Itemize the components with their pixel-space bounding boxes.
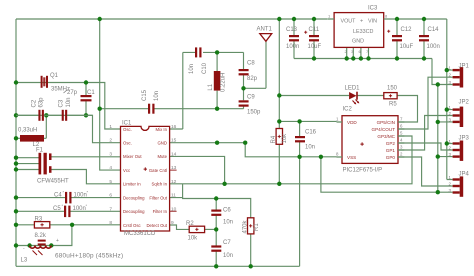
wire C6 top row to R1 <box>183 198 251 218</box>
label C11 10uF <box>308 27 322 50</box>
svg-text:1: 1 <box>109 124 112 130</box>
wire C11 column <box>313 19 315 59</box>
svg-text:11: 11 <box>171 193 176 199</box>
svg-text:C16: C16 <box>305 130 317 136</box>
inductor L2 <box>20 135 44 142</box>
wire JP4 pin3 stub <box>438 191 453 193</box>
svg-text:3: 3 <box>109 151 112 157</box>
label C5 100n <box>53 203 88 212</box>
label F1 CFW455HT <box>36 148 69 185</box>
svg-text:Gate Cntl: Gate Cntl <box>149 168 167 173</box>
wire C13 column <box>293 19 295 59</box>
wire C15 row <box>100 108 244 110</box>
label JP3 <box>459 136 470 142</box>
label 150 R5 <box>387 86 398 108</box>
svg-text:12: 12 <box>171 179 177 185</box>
svg-text:C2: C2 <box>32 99 38 107</box>
svg-text:6: 6 <box>109 193 112 199</box>
antenna ANT1 <box>260 34 272 42</box>
svg-text:100n: 100n <box>73 206 86 212</box>
svg-text:IC1: IC1 <box>122 121 132 127</box>
wire IC1 pin15 ground run to IC2 VSS <box>170 143 337 157</box>
label JP4 <box>459 172 470 178</box>
wire C4 row to IC1 pin6 <box>16 197 121 199</box>
label JP2 <box>459 100 470 106</box>
svg-text:C11: C11 <box>309 27 320 33</box>
wire 3.3V rail down from top <box>278 19 280 129</box>
svg-text:10n: 10n <box>189 64 195 74</box>
capacitor C5 <box>64 206 71 218</box>
wire C8 C9 antenna column <box>244 41 267 108</box>
pin numbers JP1 <box>449 66 452 85</box>
svg-text:4: 4 <box>109 165 112 171</box>
wire C6 C7 column <box>215 199 217 267</box>
svg-text:C3: C3 <box>59 99 65 107</box>
IC3 internal texts <box>341 19 378 45</box>
svg-text:10n: 10n <box>223 220 233 226</box>
capacitor C2 <box>16 110 62 121</box>
svg-text:10n: 10n <box>66 97 72 107</box>
svg-text:0.22uH: 0.22uH <box>221 73 227 92</box>
capacitor C3 <box>62 110 93 121</box>
svg-text:MC3361CD: MC3361CD <box>124 231 156 237</box>
svg-text:C6: C6 <box>223 208 231 214</box>
wire C16 column <box>299 121 301 266</box>
svg-text:Mixer Out: Mixer Out <box>123 154 142 159</box>
label 10n C10 <box>189 62 208 74</box>
wire oscillator VCC drop to IC1 pin4 <box>100 19 121 170</box>
svg-text:150: 150 <box>387 86 398 92</box>
resistor R4 <box>276 129 282 145</box>
svg-text:VDD: VDD <box>347 120 357 125</box>
svg-text:0,33uH: 0,33uH <box>18 128 37 134</box>
svg-text:Detect Out: Detect Out <box>146 223 167 228</box>
svg-text:LE33CD: LE33CD <box>353 29 373 35</box>
wire LED R5 row <box>279 96 417 123</box>
svg-text:7: 7 <box>109 206 112 212</box>
wire VCC chain to JP pin1 <box>447 19 453 180</box>
wire C12 column <box>396 19 398 59</box>
label ANT1 <box>257 27 273 33</box>
svg-text:100n: 100n <box>427 44 440 50</box>
pin numbers IC1 <box>109 124 176 226</box>
wire GP1 to JP2 pin2 <box>398 116 453 151</box>
label C15 10n <box>142 89 160 101</box>
capacitor C13 <box>289 35 299 41</box>
svg-text:5: 5 <box>109 179 112 185</box>
wire L3 tank row <box>16 225 72 246</box>
svg-text:C8: C8 <box>247 61 255 67</box>
svg-text:Limiter In: Limiter In <box>123 182 141 187</box>
label R2 10k <box>186 221 198 241</box>
label C13 100n <box>286 27 299 50</box>
svg-text:JP1: JP1 <box>459 64 470 70</box>
wire L1 column <box>216 52 218 108</box>
label IC2 PIC12F675 <box>343 107 383 174</box>
svg-text:GND: GND <box>352 39 364 45</box>
wire ground chain JP pin3 <box>438 85 453 193</box>
svg-text:Crstl Osc: Crstl Osc <box>123 223 142 228</box>
svg-text:JP4: JP4 <box>459 172 470 178</box>
svg-text:GP0: GP0 <box>386 155 396 160</box>
label C2 63p <box>32 97 45 108</box>
svg-text:LED1: LED1 <box>345 86 361 92</box>
svg-text:R1: R1 <box>254 223 260 231</box>
label IC3 LE33CD <box>368 6 378 12</box>
svg-text:10uF: 10uF <box>308 44 322 50</box>
label 27p C1 <box>64 90 96 96</box>
capacitor C11 polarized <box>304 31 319 42</box>
connector JP1 <box>453 67 464 87</box>
svg-text:Osc.: Osc. <box>123 127 132 132</box>
IC U2 PIC12F675 box <box>337 116 405 164</box>
connector JP4 <box>453 176 464 196</box>
connector JP3 <box>453 141 464 161</box>
wire squelch net B <box>170 136 412 184</box>
LED LED1 <box>349 92 359 105</box>
capacitor C8 <box>239 69 249 75</box>
label R4 10k <box>271 133 288 144</box>
label L3 value <box>21 238 124 264</box>
svg-text:9: 9 <box>171 220 174 226</box>
wire F1 to IC1 pin5 <box>52 170 121 184</box>
wire IC1 pin11 pin12 loop <box>170 184 183 198</box>
svg-text:14: 14 <box>171 151 177 157</box>
svg-text:VSS: VSS <box>347 155 356 160</box>
svg-text:L3: L3 <box>21 258 28 264</box>
svg-text:C7: C7 <box>223 240 231 246</box>
svg-text:C9: C9 <box>247 95 255 101</box>
svg-text:GND: GND <box>157 141 167 146</box>
svg-text:10n: 10n <box>223 253 233 259</box>
capacitor C4 <box>65 192 72 204</box>
pin stubs IC1 unconnected <box>170 170 177 211</box>
wire L2 row <box>16 115 46 138</box>
wire R4 bottom <box>278 144 280 184</box>
resistor R3 <box>34 222 49 228</box>
pin numbers IC2 <box>336 117 403 157</box>
wire VSS branch down to ground bus <box>321 157 438 192</box>
pin numbers JP2 <box>449 105 452 122</box>
label C7 10n <box>223 240 233 259</box>
wire GP2 to JP3 pin2 <box>398 143 453 150</box>
resistor R2 <box>189 226 204 232</box>
label C14 100n <box>427 27 440 50</box>
svg-text:680uH+180p (455kHz): 680uH+180p (455kHz) <box>55 253 123 260</box>
pin names IC1 right <box>146 127 167 228</box>
svg-text:C1: C1 <box>87 90 95 96</box>
svg-text:Mix In: Mix In <box>156 127 168 132</box>
svg-text:CFW455HT: CFW455HT <box>37 179 69 185</box>
svg-text:GP1: GP1 <box>386 148 396 153</box>
svg-text:470k: 470k <box>243 219 249 233</box>
pin numbers JP3 <box>449 139 452 157</box>
capacitor C6 <box>211 210 221 216</box>
svg-text:R2: R2 <box>186 221 194 227</box>
wire C5 row to IC1 pin7 <box>16 210 121 212</box>
svg-text:150p: 150p <box>247 110 261 116</box>
svg-text:82p: 82p <box>247 76 258 82</box>
svg-text:10n: 10n <box>305 145 315 151</box>
svg-text:C13: C13 <box>286 27 298 33</box>
pin names IC2 <box>347 120 396 160</box>
svg-text:C12: C12 <box>401 27 413 33</box>
wire IC1 pin9 to R2 <box>170 225 190 229</box>
svg-text:PIC12F675-I/P: PIC12F675-I/P <box>343 168 383 174</box>
svg-text:C15: C15 <box>142 89 148 101</box>
wire bottom ground rail <box>16 265 300 267</box>
svg-text:27p: 27p <box>67 90 78 96</box>
svg-text:Decoupling: Decoupling <box>123 209 145 214</box>
svg-text:100n: 100n <box>74 193 87 199</box>
svg-text:63p: 63p <box>39 97 45 108</box>
svg-text:R5: R5 <box>389 102 397 108</box>
wire GP0 to JP4 pin2 <box>398 157 453 186</box>
svg-text:GP2: GP2 <box>386 141 396 146</box>
capacitor C1 <box>81 95 92 101</box>
wire C2 C3 row to IC1 pin2 <box>16 115 121 142</box>
wire R2 to C6 C7 node <box>205 228 216 230</box>
wire F1 to IC1 pin3 <box>52 156 121 158</box>
svg-text:JP3: JP3 <box>459 136 470 142</box>
svg-text:F1: F1 <box>36 148 44 154</box>
svg-text:Mute: Mute <box>157 154 167 159</box>
label 0.33uH L2 <box>18 128 40 149</box>
inductor L3 tank <box>30 240 52 255</box>
wire left rail <box>15 19 17 266</box>
svg-text:10n: 10n <box>154 91 160 101</box>
resistor R1 <box>248 218 254 234</box>
label LED1 <box>345 86 361 92</box>
crystal Q1 <box>41 76 48 88</box>
svg-text:JP2: JP2 <box>459 100 470 106</box>
capacitor C7 <box>211 245 221 251</box>
svg-text:10: 10 <box>171 206 177 212</box>
svg-text:+: + <box>56 238 59 244</box>
svg-text:Vcc: Vcc <box>123 168 131 173</box>
svg-text:VIN: VIN <box>368 19 377 25</box>
svg-text:10k: 10k <box>282 133 288 144</box>
label C3 10n <box>59 97 73 107</box>
svg-text:Q1: Q1 <box>50 73 59 79</box>
label IC1 MC3361CD <box>122 121 156 238</box>
svg-text:100n: 100n <box>286 44 299 50</box>
capacitor C14 <box>419 35 429 41</box>
capacitor C9 <box>239 100 249 106</box>
connector JP2 <box>453 107 464 127</box>
svg-text:10k: 10k <box>188 236 199 242</box>
label R3 8.2k <box>35 217 47 240</box>
pin numbers JP4 <box>449 175 452 193</box>
svg-text:GP3/MC: GP3/MC <box>377 134 395 139</box>
wire Q1 crystal row to IC1 pin1 <box>16 83 121 130</box>
label Q1 <box>50 73 70 93</box>
wire F1 left pins <box>16 158 39 170</box>
label C9 150p <box>247 95 261 116</box>
svg-text:16: 16 <box>171 124 177 130</box>
wire IC3 ground pin stubs <box>347 47 369 58</box>
capacitor C12 polarized <box>387 30 402 42</box>
svg-text:Decoupling: Decoupling <box>123 195 145 200</box>
wire R1 bottom <box>250 234 252 266</box>
svg-text:GP5/CIN: GP5/CIN <box>377 120 395 125</box>
svg-text:IC3: IC3 <box>368 6 378 12</box>
pin names IC1 left <box>123 127 145 228</box>
svg-text:ANT1: ANT1 <box>257 27 273 33</box>
wire VCC top rail <box>16 18 447 20</box>
svg-text:10uF: 10uF <box>400 44 414 50</box>
label C8 82p <box>247 61 258 83</box>
svg-text:8: 8 <box>109 220 112 226</box>
svg-text:R3: R3 <box>35 217 43 223</box>
svg-text:L1: L1 <box>208 83 214 90</box>
IC U3 LE33CD box <box>327 13 389 48</box>
capacitor C15 <box>148 104 155 114</box>
svg-text:Filter Out: Filter Out <box>149 195 167 200</box>
wire C10 mixer row <box>170 52 244 129</box>
svg-text:+: + <box>360 19 363 25</box>
label 470k R1 <box>243 219 261 233</box>
svg-text:15: 15 <box>171 138 177 144</box>
label C6 10n <box>223 208 233 226</box>
wire IC3 gnd row <box>294 58 432 60</box>
svg-text:VOUT: VOUT <box>341 19 357 25</box>
svg-text:IC2: IC2 <box>343 107 353 113</box>
svg-text:Sqlch In: Sqlch In <box>151 182 167 187</box>
svg-text:C14: C14 <box>428 27 440 33</box>
label C4 100n <box>54 190 89 199</box>
filter F1 <box>39 153 52 175</box>
svg-text:Osc.: Osc. <box>123 141 132 146</box>
IC U1 MC3361CD box <box>121 126 170 231</box>
label JP1 <box>459 64 470 70</box>
wire IC1 pin14 drop <box>170 156 225 183</box>
IC3 pin numbers <box>328 14 388 55</box>
inductor L1 <box>214 71 221 91</box>
svg-text:R4: R4 <box>271 135 277 143</box>
svg-text:8.2k: 8.2k <box>35 233 47 239</box>
svg-text:C10: C10 <box>202 62 208 74</box>
wire ground drop to JP1 pin3 <box>432 59 453 85</box>
wire R3 row to IC1 pin8 <box>16 224 121 226</box>
label C16 10n <box>305 130 317 151</box>
capacitor C16 <box>295 136 305 142</box>
wire C14 column <box>423 19 425 59</box>
svg-text:C4: C4 <box>54 193 62 199</box>
wire C1 branch <box>85 83 87 116</box>
svg-text:Filter In: Filter In <box>153 209 168 214</box>
label L1 0.22uH <box>208 73 227 92</box>
label C12 10uF <box>400 27 414 50</box>
resistor R5 <box>384 93 397 99</box>
wire GP4 to JP1 pin2 <box>398 77 453 129</box>
capacitor C10 <box>195 47 202 57</box>
svg-text:2: 2 <box>109 138 112 144</box>
svg-text:13: 13 <box>171 165 177 171</box>
svg-text:C5: C5 <box>53 206 61 212</box>
svg-text:GP4/COUT: GP4/COUT <box>372 127 396 132</box>
wire VDD row <box>279 120 336 122</box>
